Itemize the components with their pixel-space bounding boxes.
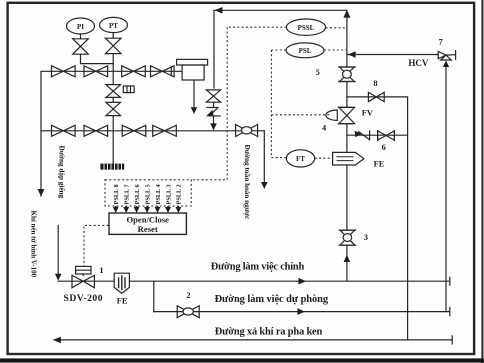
valve row2 no.2	[84, 125, 96, 136]
signal trunk to FV actuator	[271, 114, 330, 116]
ball valve reverse circulation	[236, 125, 247, 137]
svg-text:Đường dập giếng: Đường dập giếng	[57, 146, 66, 199]
signal PSL left	[271, 49, 286, 51]
valve PT isolation	[105, 38, 121, 46]
wire between column valves	[112, 97, 114, 102]
wire line1 main working	[58, 280, 450, 282]
end cap line2	[449, 307, 451, 315]
wire bypass branch valve8	[347, 97, 408, 340]
wire HCV riser drop to line2	[445, 66, 447, 312]
valve row1 no.2	[84, 66, 96, 77]
instrument FT	[286, 150, 314, 167]
wire PT stem	[112, 33, 114, 39]
arrow right line2	[297, 308, 305, 315]
signal trunk PSSL down	[191, 27, 227, 180]
svg-text:PSSL: PSSL	[298, 24, 315, 32]
arrow left line3	[53, 337, 61, 344]
wire branch to line2	[153, 281, 155, 311]
svg-text:PSLL 6: PSLL 6	[134, 184, 141, 204]
gauge PT	[100, 17, 128, 32]
valve row1 no.4	[151, 66, 163, 77]
valve row2 no.3	[122, 125, 134, 136]
svg-text:FE: FE	[117, 296, 128, 305]
wire check + valve6 branch	[347, 134, 408, 136]
signal FT to FE	[315, 157, 332, 159]
gauge PI	[67, 18, 95, 34]
regulator body	[182, 65, 204, 80]
controller box Open/Close Reset	[109, 213, 186, 234]
instrument PSSL	[286, 19, 325, 35]
wire top header from main line to manifold drop	[214, 10, 347, 88]
svg-text:2: 2	[186, 291, 190, 300]
wire line3 vent	[54, 339, 452, 341]
arrow down reverse-circulation end	[261, 182, 268, 189]
valve 8 bypass	[368, 92, 376, 101]
svg-text:SDV-200: SDV-200	[64, 293, 103, 304]
instrument PSL	[286, 43, 324, 58]
wire drop between valve and check symbol	[213, 102, 215, 107]
wire PI branch	[81, 54, 114, 63]
svg-text:Đường xả khí ra pha ken: Đường xả khí ra pha ken	[215, 327, 323, 338]
svg-text:3: 3	[364, 233, 368, 242]
svg-text:6: 6	[382, 143, 386, 152]
arrow down kill-line end	[38, 189, 45, 197]
arrow right line1	[298, 278, 306, 285]
arrows switch bank to controller	[115, 206, 117, 209]
wire main riser segments	[346, 10, 348, 67]
svg-text:8: 8	[373, 79, 377, 88]
valve PI isolation	[73, 39, 89, 47]
svg-text:PSL: PSL	[299, 47, 312, 55]
actuator dome FV	[326, 110, 338, 120]
valve row2 no.4	[153, 125, 165, 136]
valve row2 no.1	[52, 125, 64, 136]
end cap line1	[449, 277, 451, 285]
flow element FE line1 shield	[114, 273, 129, 293]
svg-text:FT: FT	[296, 155, 305, 163]
valve 6	[377, 131, 379, 141]
svg-text:FV: FV	[362, 108, 373, 117]
valve row1 no.3	[122, 66, 134, 77]
svg-text:1: 1	[99, 266, 103, 275]
wire row1 manifold line	[41, 71, 182, 196]
svg-text:5: 5	[316, 68, 320, 77]
svg-text:PSLL 4: PSLL 4	[155, 184, 162, 205]
svg-text:PT: PT	[109, 22, 118, 30]
arrow left HCV into main riser	[348, 51, 356, 58]
outer window edge bottom	[0, 358, 484, 362]
signal trunk PSL down	[270, 50, 272, 158]
arrow down regulator outlet	[191, 107, 198, 114]
svg-text:Đường tuần hoàn ngược: Đường tuần hoàn ngược	[243, 145, 252, 221]
arrow up at top of main riser	[343, 10, 350, 18]
wire instrument air supply	[57, 225, 59, 274]
svg-text:Reset: Reset	[138, 224, 158, 234]
svg-text:PI: PI	[77, 23, 84, 31]
svg-text:Đường làm việc chính: Đường làm việc chính	[211, 261, 305, 272]
hatched plug	[100, 164, 124, 170]
svg-text:Đường làm việc dự phòng: Đường làm việc dự phòng	[215, 294, 329, 305]
wire row2 manifold line	[41, 130, 264, 132]
valve row1 no.1	[52, 66, 64, 77]
valve column lower	[106, 102, 121, 109]
svg-text:FE: FE	[374, 159, 385, 168]
signal trunk to FT	[271, 157, 286, 159]
wire reverse-circulation drop	[263, 131, 265, 182]
valve SDV-200	[72, 275, 83, 287]
wire row2 to hatch plug	[112, 131, 114, 164]
svg-text:HCV: HCV	[408, 58, 429, 68]
valve drop manifold (on x=213 drop)	[206, 90, 220, 96]
svg-text:PSLL 8: PSLL 8	[113, 184, 120, 204]
signal PSL to riser	[324, 49, 347, 51]
signal PSSL to trunk	[227, 26, 286, 28]
switch bank dashed box	[105, 180, 191, 206]
valve 7 HCV angle valve	[438, 51, 446, 58]
regulator inlet flange tick	[170, 66, 172, 75]
check symbol on drop	[207, 107, 218, 109]
gearbox actuator box	[123, 86, 134, 93]
arrow down air supply	[55, 274, 62, 281]
flow element FE riser	[333, 152, 364, 165]
arrow down drop into row2	[210, 123, 217, 130]
wire line2 standby	[154, 311, 450, 313]
arrow up HCV riser	[443, 61, 449, 67]
valve 2 ball standby	[177, 306, 188, 318]
check valve on branch	[355, 131, 362, 137]
outer window edge right	[481, 0, 483, 363]
signal PSSL to riser	[326, 27, 347, 29]
svg-text:PSLL 7: PSLL 7	[124, 184, 131, 204]
svg-text:PSLL 3: PSLL 3	[165, 184, 172, 204]
actuator SDV-200	[76, 266, 91, 274]
valve column upper with gearbox	[106, 85, 121, 92]
svg-text:PSLL 5: PSLL 5	[144, 184, 151, 204]
svg-text:7: 7	[439, 37, 443, 46]
arrow left at top header into drop	[215, 7, 223, 14]
end cap line3	[451, 336, 453, 344]
wire drop to row2	[213, 116, 215, 124]
valve 3 ball on riser	[339, 229, 355, 231]
svg-text:Khí nén từ bình V-100: Khí nén từ bình V-100	[30, 211, 38, 278]
svg-text:PSLL 2: PSLL 2	[176, 184, 183, 204]
wire HCV line	[347, 54, 438, 56]
wire regulator outlet	[193, 80, 195, 108]
wire column to row2	[112, 116, 114, 131]
wire PT drop through row1	[112, 54, 114, 85]
arrow up main riser above line1	[344, 255, 351, 262]
valve FV body	[338, 106, 354, 108]
wire PI stem	[80, 34, 82, 39]
signal controller to SDV actuator	[84, 225, 109, 266]
valve 5 ball on riser	[339, 66, 355, 68]
regulator top plate	[177, 59, 208, 65]
